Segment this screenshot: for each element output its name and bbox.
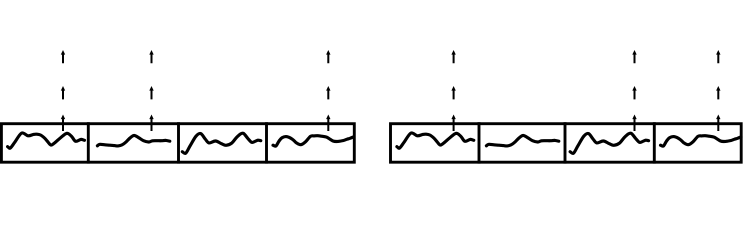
- middle up-arrow above left segment 2: [149, 86, 153, 99]
- middle up-arrow above right segment 3: [632, 86, 636, 99]
- top up-arrow above left segment 1: [61, 50, 65, 63]
- waveform segment 1 (right window): [397, 133, 474, 148]
- waveform segment 3 (left window): [182, 133, 260, 153]
- middle up-arrow above left segment 1: [61, 86, 65, 99]
- bottom up-arrow above left segment 2: [149, 115, 153, 132]
- right box divider 1: [478, 122, 481, 163]
- right sliding-window outer box: [391, 124, 742, 163]
- left box divider 3: [265, 122, 268, 163]
- top up-arrow above right segment 3: [632, 50, 636, 63]
- waveform segment 1 (left window): [8, 133, 85, 148]
- top up-arrow above right segment 1: [451, 50, 455, 63]
- right box divider 2: [564, 122, 567, 163]
- left box divider 2: [177, 122, 180, 163]
- bottom up-arrow above right segment 1: [451, 115, 455, 132]
- waveform segment 4 (right window): [661, 136, 742, 146]
- bottom up-arrow above left segment 1: [61, 115, 65, 132]
- left box divider 1: [87, 122, 90, 163]
- top up-arrow above left segment 4: [326, 50, 330, 63]
- waveform segment 3 (right window): [570, 133, 649, 153]
- top up-arrow above left segment 2: [149, 50, 153, 63]
- middle up-arrow above right segment 1: [451, 86, 455, 99]
- right box divider 3: [653, 122, 656, 163]
- bottom up-arrow above right segment 3: [632, 115, 636, 132]
- waveform segment 2 (left window): [97, 135, 169, 146]
- waveform segment 2 (right window): [486, 135, 558, 146]
- bottom up-arrow above left segment 4: [326, 115, 330, 132]
- left sliding-window outer box: [1, 124, 354, 163]
- middle up-arrow above left segment 4: [326, 86, 330, 99]
- middle up-arrow above right segment 4: [716, 86, 720, 99]
- bottom up-arrow above right segment 4: [716, 115, 720, 132]
- top up-arrow above right segment 4: [716, 50, 720, 63]
- waveform segment 4 (left window): [273, 136, 354, 146]
